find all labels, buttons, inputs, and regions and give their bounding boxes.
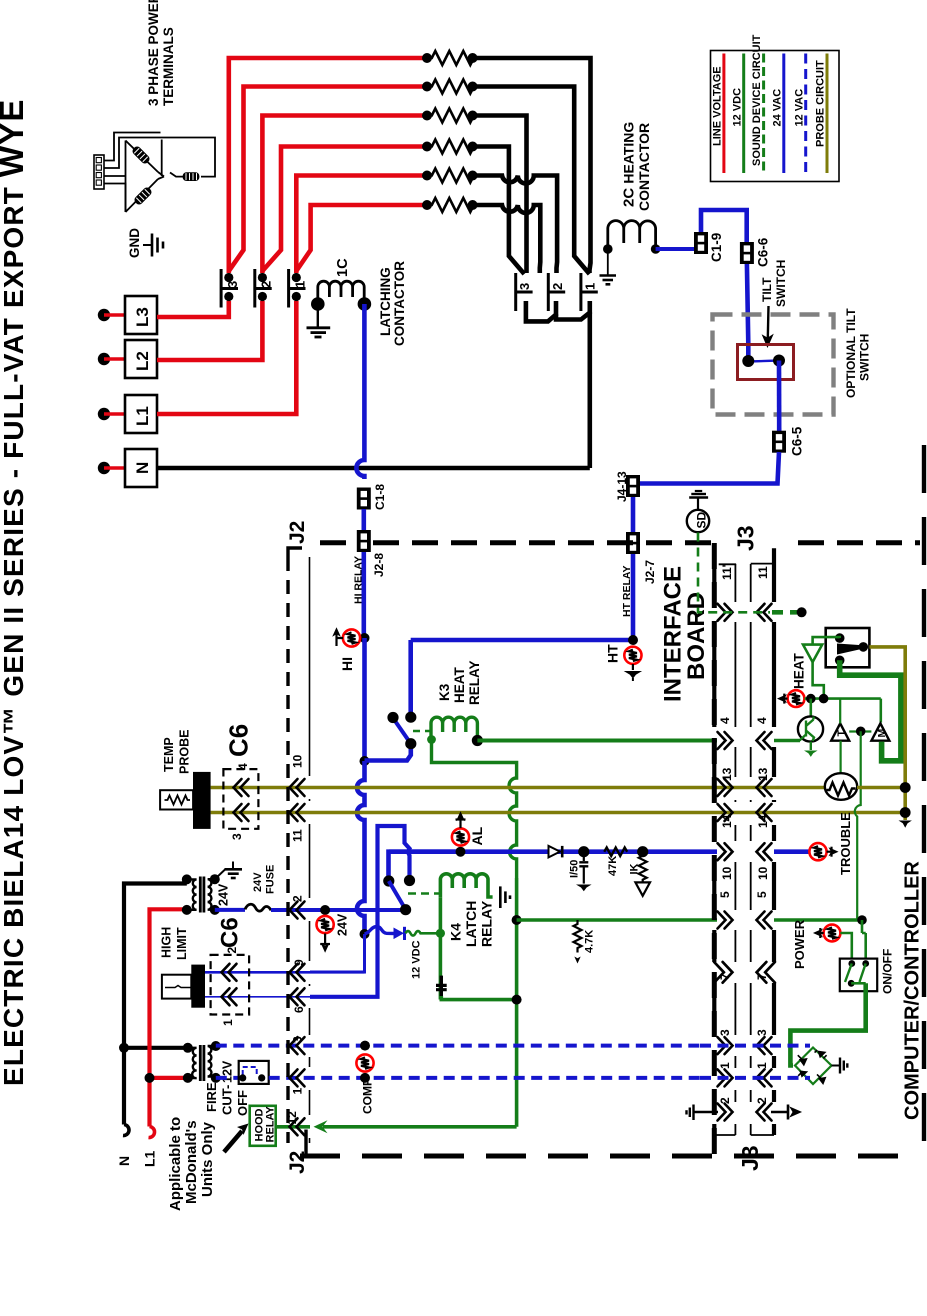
green T triangle to thermistor arrow: [839, 741, 841, 773]
svg-text:4: 4: [236, 763, 250, 770]
interface board thin left line: [309, 557, 311, 1143]
svg-text:11': 11': [720, 564, 734, 580]
svg-text:TILT: TILT: [760, 277, 774, 302]
connector J2-7: [626, 532, 640, 554]
svg-text:C6-6: C6-6: [756, 237, 771, 267]
terminal box N: [125, 449, 157, 487]
cap I/50 node: [578, 846, 589, 857]
legend 12vdc: [742, 54, 745, 174]
TROUBLE ground arrow right: [827, 847, 838, 857]
coil 2C: [608, 221, 656, 249]
black row3: [473, 116, 527, 274]
GND earth symbol: [143, 234, 163, 257]
svg-text:3: 3: [230, 833, 244, 840]
1K node: [637, 846, 648, 857]
svg-text:4.7K: 4.7K: [584, 930, 596, 953]
svg-text:J3: J3: [733, 525, 759, 551]
svg-text:BOARD: BOARD: [683, 592, 710, 680]
SD wire end thick dashes: [772, 610, 797, 615]
svg-text:LATCHING: LATCHING: [378, 267, 393, 336]
feed row4 diagonal: [262, 147, 428, 272]
24V transformer core: [200, 877, 204, 913]
SD circle: [687, 510, 709, 532]
olive continues from thermistor to junction: [857, 786, 905, 790]
wire C6-5 to J4-13: [640, 452, 779, 484]
C6 probe connector dashed box: [223, 769, 258, 829]
feed row2 diagonal: [229, 87, 429, 272]
wire C1-8 to J2-8: [361, 509, 366, 531]
node K3 throw: [360, 756, 370, 766]
svg-text:3: 3: [718, 1029, 732, 1036]
heating element resistor R6: [429, 198, 477, 212]
svg-text:TEMP: TEMP: [162, 737, 176, 772]
legend 12vac: [804, 54, 807, 174]
svg-text:1: 1: [718, 1062, 732, 1069]
svg-text:5: 5: [718, 891, 732, 898]
svg-text:12 VAC: 12 VAC: [793, 89, 805, 127]
wire J2-2 to 24V lamp and K4: [310, 908, 404, 912]
terminal dots: [98, 309, 110, 474]
svg-text:47K: 47K: [607, 856, 619, 876]
tilt switch maroon box: [738, 345, 794, 380]
svg-text:FUSE: FUSE: [265, 865, 277, 894]
node COMP top: [360, 1041, 370, 1051]
svg-text:12 VDC: 12 VDC: [731, 88, 743, 127]
connector C1-9: [694, 232, 708, 254]
1K triangle ground: [635, 882, 650, 895]
probe wire 2: [211, 811, 906, 815]
heating element resistor R3: [429, 109, 477, 123]
vertical down to N bus: [587, 313, 592, 469]
C6 HL chevrons: [222, 964, 237, 981]
temp probe bulb: [160, 790, 193, 809]
svg-text:1: 1: [292, 281, 307, 288]
svg-text:14: 14: [756, 814, 770, 828]
legend sound device: [762, 54, 765, 174]
red stubs to boxes: [104, 315, 125, 468]
bridge right earth: [832, 1058, 848, 1074]
svg-text:LINE VOLTAGE: LINE VOLTAGE: [712, 66, 724, 146]
svg-text:N: N: [133, 462, 152, 474]
svg-text:M: M: [876, 729, 888, 738]
POWER ground arrow left: [814, 928, 823, 938]
svg-text:2: 2: [755, 1097, 769, 1104]
feed row5: [296, 176, 429, 274]
K4 blade: [389, 881, 406, 910]
svg-text:N: N: [116, 1156, 132, 1166]
probe wire 1: [211, 786, 825, 790]
wire K3 coil to J3-4: [477, 739, 717, 743]
svg-text:HIGH: HIGH: [159, 927, 173, 958]
bridge rectifier diamond: [795, 1048, 832, 1085]
svg-text:14: 14: [720, 814, 734, 828]
right boundary long dashes: [922, 445, 926, 1156]
wire 24V secondary to fuse: [215, 908, 245, 912]
svg-text:LIMIT: LIMIT: [175, 927, 189, 960]
upper coil: [132, 146, 150, 164]
24V lamp ground arrow: [320, 934, 330, 952]
legend line voltage: [722, 54, 725, 174]
node HI: [360, 633, 370, 643]
bridge diodes: [798, 1050, 827, 1083]
1K resistor hanging: [639, 852, 647, 883]
2C contactor contact 2: [548, 273, 565, 311]
K3 coil: [431, 717, 477, 740]
wire tilt switch to C6-5: [777, 361, 782, 433]
red feed wires from contacts up to heater rows: [229, 58, 429, 273]
heat bus green: [805, 699, 881, 723]
K4 coil: [440, 874, 492, 1000]
temp probe body: [193, 772, 211, 829]
wire down with hops over olive wires and 24V, to dot: [357, 761, 364, 934]
connector C1-8: [357, 488, 371, 510]
svg-text:C1-8: C1-8: [373, 484, 387, 510]
K4 open contact dot: [404, 875, 415, 886]
AL lamp: [452, 828, 469, 845]
relay box: [826, 628, 870, 667]
svg-text:11: 11: [756, 566, 770, 579]
24V secondary coil: [208, 879, 215, 910]
svg-text:10: 10: [720, 866, 734, 880]
K4 mech link dashes: [408, 892, 440, 894]
heating element resistor R2: [429, 80, 477, 94]
svg-text:J3: J3: [737, 1145, 763, 1171]
green wire lamp to switch: [840, 933, 851, 961]
svg-text:2: 2: [718, 1097, 732, 1104]
svg-text:HEAT: HEAT: [452, 666, 467, 703]
HI lamp: [343, 629, 360, 646]
high limit body: [191, 965, 205, 1008]
svg-text:10: 10: [291, 754, 305, 768]
svg-text:OFF: OFF: [235, 1090, 250, 1116]
svg-text:7: 7: [718, 973, 732, 980]
svg-text:SWITCH: SWITCH: [774, 260, 788, 307]
svg-text:Units Only: Units Only: [199, 1121, 216, 1197]
green wire node to switch: [862, 920, 866, 961]
svg-text:C1-9: C1-9: [709, 233, 724, 262]
wire K3 coil left down to K4 vertical: [432, 740, 517, 879]
svg-text:1: 1: [582, 283, 597, 290]
K4 coil right earth: [500, 886, 510, 908]
coil squiggle 12vdc (green): [406, 931, 442, 936]
heating element resistor R4: [429, 140, 477, 154]
coil 1C: [318, 281, 364, 304]
J2 dashed vertical: [286, 557, 289, 1143]
T triangle: [831, 723, 849, 740]
wire 1C coil down across N with hop: [356, 304, 364, 479]
green bottom link K4 to vertical: [441, 996, 516, 1000]
24V secondary top to earth: [215, 862, 242, 880]
svg-text:1: 1: [291, 1088, 305, 1095]
wire L2 to contact2: [157, 301, 262, 360]
wire J2-7 to HT node: [631, 554, 636, 640]
svg-text:CONTACTOR: CONTACTOR: [392, 261, 407, 346]
green power bus J3-5: [512, 915, 522, 925]
svg-text:1: 1: [755, 1062, 769, 1069]
HEAT ground arrow left: [778, 694, 787, 704]
svg-text:IK: IK: [629, 863, 641, 874]
svg-text:ON/OFF: ON/OFF: [881, 949, 895, 994]
alarm triangle: [803, 645, 822, 663]
svg-text:11: 11: [291, 829, 305, 842]
svg-text:SWITCH: SWITCH: [858, 334, 872, 381]
K3 blade: [393, 718, 411, 744]
svg-text:3: 3: [225, 281, 240, 288]
svg-text:3: 3: [755, 1029, 769, 1036]
triangle delta: [126, 141, 159, 213]
outer loop + right coil: [162, 138, 216, 177]
connector C6-5: [772, 431, 786, 453]
node 2C coil right: [651, 244, 661, 254]
svg-text:RELAY: RELAY: [479, 900, 495, 947]
svg-text:3: 3: [291, 1036, 305, 1043]
optional tilt switch dashed box: [713, 315, 834, 415]
green wire switch to bridge: [790, 983, 865, 1065]
wire HI node down to K3 throw junction: [362, 638, 367, 761]
feed row3: [262, 116, 428, 274]
svg-text:2: 2: [259, 281, 274, 288]
svg-text:5: 5: [755, 891, 769, 898]
HEAT lamp: [788, 690, 805, 707]
ground under 1C coil: [307, 310, 331, 337]
N bus horizontal: [157, 466, 590, 471]
wire 24vac coil to C1-9: [656, 247, 694, 251]
AL node: [456, 847, 466, 857]
wire hood relay to J2-12: [276, 1125, 310, 1129]
green wire triangle to relay top contact: [813, 637, 840, 645]
black row6 with hops: [473, 205, 541, 273]
heating element resistor R1: [429, 51, 477, 65]
connector J4-13: [626, 475, 640, 497]
COMP lamp: [356, 1054, 373, 1071]
T triangle wire to heat bus: [839, 699, 841, 724]
black row5 with hops: [473, 176, 557, 274]
tilt switch blade: [748, 361, 779, 362]
ground under 2C coil left: [600, 252, 617, 284]
node diode tap: [360, 929, 370, 939]
svg-text:C6-5: C6-5: [790, 426, 805, 456]
diode branch: node to 12VDC: [365, 926, 395, 934]
feed row6 diagonal: [296, 205, 429, 271]
svg-text:K3: K3: [437, 683, 452, 701]
J3 left half columns: [712, 564, 716, 1135]
24V fuse: [245, 904, 271, 911]
svg-text:J2-7: J2-7: [643, 560, 657, 584]
svg-text:C6: C6: [217, 917, 244, 948]
high limit wire 6: [205, 996, 310, 998]
svg-text:T: T: [836, 730, 848, 737]
svg-text:24V: 24V: [252, 872, 264, 892]
SD green dashed wire: [698, 533, 770, 613]
TROUBLE row: blue from J3-10 to lamp: [774, 849, 810, 854]
svg-text:2C HEATING: 2C HEATING: [621, 122, 638, 207]
thin green from TM node down: [855, 731, 861, 920]
svg-text:2: 2: [291, 895, 305, 902]
svg-text:6: 6: [292, 1006, 306, 1013]
12vac dashed wire 3: [216, 1044, 700, 1048]
K3 contact dots: [387, 712, 398, 723]
connector J2-8: [357, 530, 371, 552]
1C contactor contact 2: [255, 269, 272, 308]
svg-text:LATCH: LATCH: [463, 901, 479, 947]
green wire K4 bottom to hood arrow: [323, 1125, 517, 1129]
green power bus to node: [774, 918, 862, 922]
high limit wire 9: [205, 971, 310, 974]
svg-text:HEAT: HEAT: [792, 652, 807, 689]
olive from relay box right: [869, 647, 905, 820]
svg-text:ELECTRIC BIELA14 LOV™ GEN II S: ELECTRIC BIELA14 LOV™ GEN II SERIES - FU…: [0, 98, 30, 1086]
wire J2-8 down to HI node: [361, 552, 366, 638]
black row1: [473, 58, 591, 273]
ON/OFF switch box: [840, 959, 877, 992]
svg-text:13: 13: [756, 767, 770, 781]
K4 pole dot: [383, 875, 394, 886]
svg-text:CUT-: CUT-: [220, 1085, 235, 1115]
M triangle: [871, 723, 889, 740]
wire C6-6 to tilt switch: [747, 264, 748, 357]
node HT: [628, 635, 638, 645]
wire K3 to HT node: [411, 638, 633, 643]
wire down to J2-9 row: [310, 934, 365, 972]
24V lamp: [317, 916, 334, 933]
arrow to hood relay: [224, 1124, 249, 1153]
TROUBLE lamp: [809, 843, 826, 860]
svg-text:10: 10: [756, 866, 770, 880]
green wire triangle bottom to heat bus: [813, 662, 824, 697]
transistor: [798, 716, 823, 756]
4.7K resistor hanging: [574, 920, 582, 953]
K3 mech link dashes: [413, 730, 431, 732]
HI lamp ground arrow: [333, 629, 343, 647]
POWER lamp: [824, 925, 841, 942]
1C contactor contact 1: [289, 269, 306, 308]
delta transformer symbol: [94, 133, 215, 213]
12vac dashed wire 1 continue: [269, 1076, 700, 1080]
heating element resistor R5: [429, 169, 477, 183]
L1 feed vertical: [149, 909, 188, 1137]
C6 high limit dashed box: [211, 955, 250, 1015]
svg-text:RELAY: RELAY: [265, 1106, 277, 1143]
12vac dashed wire 1 to fire cutoff: [216, 1076, 239, 1080]
svg-text:TROUBLE: TROUBLE: [838, 812, 853, 875]
N feed vertical: [123, 884, 188, 1136]
svg-text:12 VDC: 12 VDC: [411, 940, 423, 979]
svg-text:3: 3: [517, 283, 532, 290]
pin wires: [104, 133, 161, 161]
arrow to tilt switch: [764, 306, 771, 345]
svg-text:HT: HT: [605, 644, 621, 663]
connector C6-6: [740, 242, 754, 264]
wire L3 to contact3: [157, 301, 229, 317]
wire hl6 to n-loop: [310, 826, 410, 997]
svg-text:4: 4: [718, 717, 732, 724]
AL ground arrow up: [456, 813, 466, 829]
J2 horizontal dashed line: [320, 540, 355, 545]
interface board right dashed boundary: [712, 543, 717, 1156]
K4 blade bottom dot: [400, 904, 411, 915]
svg-text:L1: L1: [133, 406, 152, 426]
svg-text:J4-13: J4-13: [615, 471, 629, 502]
svg-text:13: 13: [720, 767, 734, 781]
diode on latch bus: [549, 846, 563, 858]
svg-text:Applicable to: Applicable to: [167, 1117, 184, 1211]
J3-2 left ground wire: [694, 1111, 718, 1113]
legend 24vac: [782, 54, 785, 174]
K3 contact wire from HT line: [408, 640, 413, 714]
47K resistor on bus: [604, 848, 627, 856]
12V transformer core: [200, 1045, 204, 1081]
top-right boundary dashes continuation: [798, 540, 920, 545]
svg-text:24V: 24V: [336, 913, 350, 936]
terminal box L2: [125, 340, 157, 378]
extend 12vac dashed to bridge: [700, 1044, 810, 1048]
black row4 + diagonal: [473, 147, 525, 275]
svg-text:RELAY: RELAY: [467, 660, 482, 705]
latch bus blue: [389, 849, 717, 854]
svg-text:AL: AL: [469, 826, 485, 845]
wire 2C contact bus: [157, 301, 590, 468]
K3 throw to main vertical: [365, 744, 411, 761]
J2 corner top: [288, 548, 302, 557]
node 1C coil right: [358, 297, 372, 311]
J3-2 right arrow wire: [771, 1111, 788, 1113]
svg-text:L1: L1: [142, 1150, 158, 1167]
svg-text:HI: HI: [339, 657, 355, 671]
thermistor ellipse: [825, 773, 857, 800]
interface bottom-left corner: [304, 1130, 307, 1154]
feed row1: [229, 58, 429, 273]
wire L1 to contact1: [157, 301, 296, 414]
HT lamp ground arrow: [626, 664, 641, 681]
svg-text:COMPUTER/CONTROLLER: COMPUTER/CONTROLLER: [902, 861, 924, 1120]
svg-text:FIRE: FIRE: [204, 1082, 219, 1112]
cap I/50: [579, 852, 588, 884]
svg-text:J2-8: J2-8: [372, 553, 386, 577]
svg-text:McDonald's: McDonald's: [183, 1120, 200, 1204]
svg-text:I/50: I/50: [569, 860, 581, 878]
svg-text:J2: J2: [286, 521, 309, 544]
green vertical continues to hood relay wire: [515, 878, 519, 1127]
node COMP bottom: [360, 1073, 370, 1083]
svg-text:4: 4: [755, 717, 769, 724]
svg-text:1: 1: [221, 1019, 235, 1026]
svg-text:12: 12: [285, 1111, 299, 1125]
blue latch bus into K4 pole: [389, 852, 459, 876]
svg-text:PROBE CIRCUIT: PROBE CIRCUIT: [815, 60, 827, 147]
svg-text:L2: L2: [133, 351, 152, 371]
2C contactor contact 1: [581, 273, 598, 311]
svg-text:COMP: COMP: [361, 1078, 375, 1114]
svg-text:TERMINALS: TERMINALS: [161, 27, 176, 106]
svg-text:SD: SD: [695, 511, 709, 528]
terminal box L3: [125, 296, 157, 334]
cap element on K4 left lead: [436, 976, 447, 1000]
legend probe circuit: [826, 54, 829, 174]
terminal box L1: [125, 395, 157, 433]
green down to transistor: [809, 699, 812, 717]
green dot 12vdc junction: [436, 929, 445, 938]
svg-text:24 VAC: 24 VAC: [771, 89, 783, 127]
hood relay box: [250, 1106, 276, 1146]
svg-text:CONTACTOR: CONTACTOR: [636, 123, 652, 211]
svg-text:L3: L3: [133, 307, 152, 327]
relay blade wedge: [837, 644, 863, 655]
svg-text:K4: K4: [448, 923, 464, 941]
bottom boundary dashed: [300, 1154, 920, 1159]
svg-text:3 PHASE POWER: 3 PHASE POWER: [146, 0, 161, 106]
svg-text:POWER: POWER: [792, 919, 807, 969]
node 2C coil left: [603, 244, 613, 254]
